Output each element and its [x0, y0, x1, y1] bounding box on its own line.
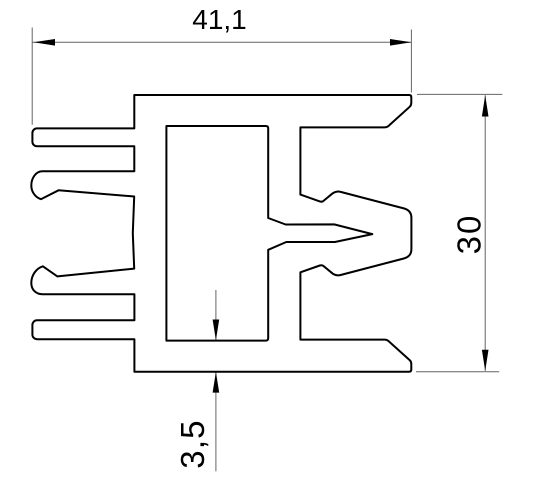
svg-text:3,5: 3,5	[174, 419, 211, 468]
svg-text:41,1: 41,1	[192, 4, 247, 35]
svg-text:30: 30	[450, 214, 487, 255]
